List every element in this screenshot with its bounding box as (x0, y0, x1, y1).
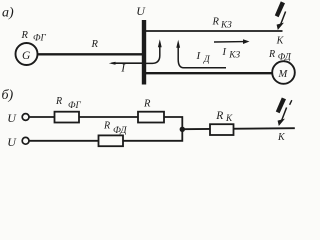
svg-text:U: U (136, 4, 146, 18)
svg-text:G: G (22, 50, 31, 62)
wire top rail (29, 117, 182, 129)
resistor R_K (210, 124, 234, 135)
svg-text:ФД: ФД (278, 53, 292, 63)
wire to fault (bottom) (182, 128, 294, 129)
svg-text:I: I (222, 47, 227, 58)
generator G (16, 43, 38, 65)
svg-text:ФГ: ФГ (33, 34, 46, 44)
svg-text:R: R (268, 49, 275, 60)
terminal (top) (22, 114, 29, 121)
svg-text:U: U (7, 111, 17, 125)
svg-text:ФД: ФД (113, 125, 127, 136)
svg-text:КЗ: КЗ (220, 21, 232, 31)
label I_KZ (222, 47, 241, 60)
node (180, 127, 185, 132)
resistor R_FD (99, 135, 124, 146)
resistor R_FG (55, 112, 80, 123)
svg-text:Д: Д (203, 55, 211, 65)
short-circuit bolt K (top) (275, 1, 286, 30)
svg-text:ФГ: ФГ (68, 101, 81, 111)
svg-text:R: R (215, 110, 223, 122)
resistor R (138, 112, 164, 123)
bus U (142, 20, 146, 85)
label R_K (215, 110, 233, 124)
curved arrow (motor current 2) (176, 40, 226, 68)
label R_FD (box) (103, 120, 127, 136)
curved arrow (motor current 1) (146, 39, 162, 63)
wire R from generator to bus (36, 53, 144, 55)
short-circuit bolt K (bottom) (276, 98, 292, 127)
svg-text:R: R (212, 17, 220, 28)
label R_FD (motor) (268, 49, 292, 63)
label R_FG (box) (55, 96, 81, 111)
wire from bus to motor (146, 72, 273, 74)
svg-text:R: R (103, 120, 110, 131)
svg-text:U: U (7, 135, 17, 149)
label R_FG (generator) (21, 30, 47, 44)
svg-text:КЗ: КЗ (228, 51, 240, 61)
label I_D (196, 50, 211, 65)
svg-text:б): б) (2, 88, 14, 103)
arrow I_KZ (214, 39, 250, 44)
svg-text:а): а) (2, 6, 14, 21)
svg-text:R: R (143, 99, 151, 110)
svg-text:М: М (278, 69, 289, 80)
svg-text:К: К (225, 114, 233, 124)
svg-text:R: R (91, 39, 99, 50)
wire bottom rail (29, 129, 182, 141)
label R_KZ (212, 17, 233, 31)
current arrow I (109, 62, 144, 65)
motor M (272, 61, 295, 84)
wire R_KZ to fault (146, 30, 283, 32)
svg-text:R: R (21, 30, 29, 41)
svg-text:R: R (55, 96, 62, 107)
terminal (bottom) (22, 137, 29, 144)
